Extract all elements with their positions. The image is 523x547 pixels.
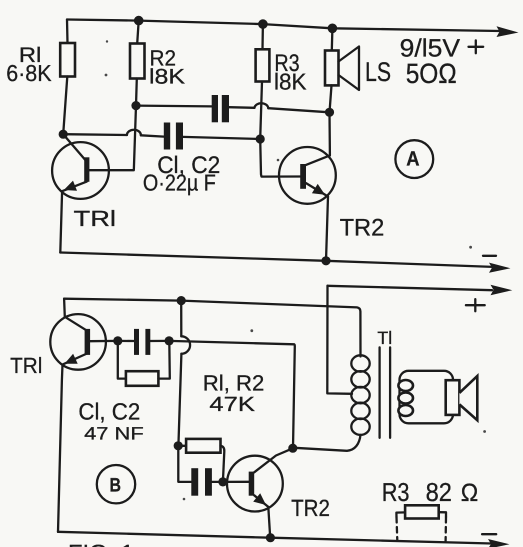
node: TR2-B emitter on rail xyxy=(266,533,275,542)
speaker (B) cone xyxy=(459,376,477,420)
svg-text:82: 82 xyxy=(426,477,452,507)
wire: TR2-B emitter to 0V rail xyxy=(268,507,270,538)
svg-text:47K: 47K xyxy=(209,393,255,416)
svg-text:l8K: l8K xyxy=(274,68,307,94)
wire: TR1-B emitter down left side to 0V rail xyxy=(58,365,63,532)
svg-text:Ω: Ω xyxy=(461,479,479,507)
wire: V+ rail B xyxy=(328,286,493,290)
wire: TR2 emitter to 0V rail xyxy=(326,197,328,261)
svg-text:R3: R3 xyxy=(382,477,410,507)
node: top rail above R2 xyxy=(134,16,144,26)
label + supply A xyxy=(469,40,484,53)
wire: V+ top rail xyxy=(67,20,500,32)
transistor TR2 (A) xyxy=(279,147,336,204)
resistor R2 xyxy=(130,21,145,106)
transistor TR1 (B) xyxy=(50,314,106,370)
node: TR2 collector / C2 / LS xyxy=(325,108,334,117)
node: TR2-B collector xyxy=(288,444,297,453)
transistor TR2 (B) xyxy=(227,448,293,511)
svg-text:Cl, C2: Cl, C2 xyxy=(78,399,140,425)
node: R2 bottom / TR1 base net xyxy=(131,101,140,110)
capacitor C1 (TR1 collector to TR2 base) xyxy=(141,123,257,150)
label minus A xyxy=(483,255,496,257)
svg-text:TRl: TRl xyxy=(10,353,42,378)
wire: TR1 collector / top rail B xyxy=(64,299,360,357)
resistor R2 (B) xyxy=(178,439,224,482)
arrowhead V+ rail B xyxy=(491,285,513,295)
resistor R3 xyxy=(256,24,270,139)
node: TR2-B base xyxy=(218,477,227,486)
scan specks xyxy=(106,40,108,42)
wire hop over TR1 base line xyxy=(127,130,141,136)
transformer T1 core xyxy=(380,347,391,437)
speaker (B) driver xyxy=(446,380,460,415)
node: R1 bottom / TR1 collector xyxy=(59,130,68,139)
wire: TR1 emitter to 0V rail xyxy=(60,191,62,252)
wire: 0V bottom rail A xyxy=(60,253,492,267)
wire: top rail B node down to R2/C2 left (upper part) xyxy=(180,301,182,337)
wire: top rail B node down to R2/C2 left (lower part) xyxy=(178,354,181,446)
speaker (B) body with voice-coil loops xyxy=(398,371,453,424)
arrowhead 0V rail B xyxy=(488,539,510,547)
arrowhead V+ rail xyxy=(497,26,519,37)
svg-text:5OΩ: 5OΩ xyxy=(406,58,457,89)
capacitor C2 (B), parallel with R2 xyxy=(178,446,223,496)
wire: top rail B corner down to TR1 collector xyxy=(63,299,66,317)
svg-text:Tl: Tl xyxy=(377,328,392,348)
svg-text:LS: LS xyxy=(365,57,391,87)
wire: C2 to TR2 collector node xyxy=(268,108,329,112)
wire hop over R3 vertical xyxy=(254,103,268,108)
wire: TR1-B base stub xyxy=(90,340,118,343)
wire hop over base wire xyxy=(181,336,190,354)
resistor R1 (B), parallel with C1 xyxy=(118,341,170,386)
node: top rail above R3 xyxy=(258,19,268,29)
marker circle B xyxy=(97,465,135,503)
node: TR1-B base right xyxy=(165,336,174,345)
arrowhead 0V rail A xyxy=(489,263,511,273)
wire: + rail B down to transformer centre tap xyxy=(327,286,352,394)
svg-text:47 NF: 47 NF xyxy=(84,423,144,443)
svg-text:6·8K: 6·8K xyxy=(6,60,52,86)
svg-text:A: A xyxy=(406,148,419,171)
node: R2/C2 left xyxy=(174,441,183,450)
resistor R1 xyxy=(60,20,75,135)
svg-text:TR2: TR2 xyxy=(340,215,385,242)
wire: R2 bottom to TR1 base xyxy=(89,106,136,171)
wire: node to TR2 base xyxy=(260,139,300,177)
label minus B xyxy=(482,533,496,535)
wire: TR2 collector up to node xyxy=(328,112,331,155)
node: TR2 emitter on 0V rail xyxy=(321,256,330,265)
wire: base net to TR2-B collector xyxy=(169,341,295,448)
wire: primary bottom to TR2-B collector xyxy=(294,435,360,451)
wire: TR2-B base wire xyxy=(223,481,249,483)
transformer T1 primary winding xyxy=(351,355,369,435)
svg-text:FIG. 1: FIG. 1 xyxy=(68,540,134,547)
node: top rail B junction xyxy=(177,296,186,305)
svg-text:TRl: TRl xyxy=(74,206,117,231)
capacitor C1 (B) xyxy=(118,329,169,355)
node: R3 bottom / C1 / TR2 base xyxy=(256,134,265,143)
label + supply B xyxy=(466,299,485,311)
capacitor C2 (TR2 collector to TR1 base) xyxy=(136,95,254,122)
svg-text:l8K: l8K xyxy=(149,66,185,89)
node: top rail above LS xyxy=(328,24,338,34)
svg-text:B: B xyxy=(109,474,121,496)
marker circle A xyxy=(395,140,433,178)
wire: TR1 collector to C1 xyxy=(63,133,127,136)
resistor R3 (B) with dashed leads xyxy=(396,505,446,541)
transistor TR1 (A) xyxy=(52,134,109,199)
svg-text:O·22µ F: O·22µ F xyxy=(143,170,216,196)
node: TR1-B base left xyxy=(113,336,122,345)
speaker LS xyxy=(325,28,359,112)
svg-text:TR2: TR2 xyxy=(291,495,330,521)
wire: 0V bottom rail B xyxy=(58,532,492,544)
